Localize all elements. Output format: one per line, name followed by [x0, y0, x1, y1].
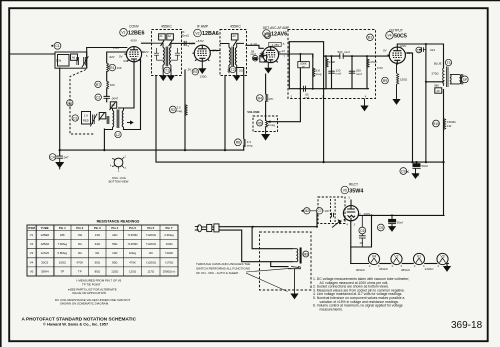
wire V4 plate line B+: [397, 44, 443, 68]
label T1 circled IF: [164, 67, 170, 73]
label C4 circled: [49, 154, 56, 161]
label C2 circled diode filter: [252, 55, 258, 61]
svg-text:Pin 2: Pin 2: [76, 226, 83, 230]
svg-text:85Ω: 85Ω: [95, 269, 101, 273]
svg-text:34Ω: 34Ω: [95, 242, 101, 246]
svg-text:369-18: 369-18: [451, 320, 483, 331]
antenna tuning cap C1A: [82, 56, 89, 67]
label C1 circled antenna: [51, 42, 61, 49]
heater string circle V4: [368, 253, 380, 264]
trimmer A2 box: [167, 34, 174, 40]
svg-text:A2: A2: [168, 34, 172, 38]
svg-text:2K: 2K: [227, 69, 231, 73]
scan edge left: [0, 0, 2, 347]
svg-text:1Meg: 1Meg: [129, 251, 137, 255]
svg-text:270Ω: 270Ω: [432, 72, 440, 76]
svg-text:© Howard W. Sams & Co., Inc. 1: © Howard W. Sams & Co., Inc. 1957: [43, 322, 108, 327]
wire AC line bottom: [219, 230, 292, 262]
svg-text:100Ω: 100Ω: [166, 242, 174, 246]
svg-text:87V: 87V: [213, 49, 218, 53]
tube V4 pin stubs: [387, 55, 397, 65]
rectifier switch dashed box: [318, 197, 345, 224]
wire V3 diode return: [288, 42, 290, 89]
label V1 circled: [120, 29, 128, 37]
label C3 circled padder: [72, 115, 78, 121]
svg-text:12AV6: 12AV6: [271, 32, 287, 38]
wire rectifier output 100V line: [358, 214, 444, 216]
wire heater seg4: [425, 263, 437, 265]
speaker voice coil: [460, 74, 463, 84]
resistor 100 osc: [107, 81, 109, 89]
tube V5 internals: [347, 206, 355, 221]
svg-text:50C5: 50C5: [394, 34, 407, 40]
label R3 circled V2 cathode: [192, 69, 198, 75]
svg-text:Pin 7: Pin 7: [166, 226, 173, 230]
svg-text:13Ω: 13Ω: [95, 233, 101, 237]
T1 primary coil: [152, 43, 165, 69]
svg-text:V3: V3: [440, 255, 444, 259]
oscillator tuning cap C1B: [90, 114, 97, 127]
wire 6.8meg branch: [312, 54, 314, 89]
resistor 470K left: [326, 59, 328, 68]
trimmer A4 arrow: [99, 113, 105, 121]
output transformer primary: [443, 68, 444, 86]
label V2 circled: [194, 29, 202, 37]
ground below detector box: [361, 99, 367, 111]
wire heater seg2: [380, 263, 391, 265]
svg-text:47K: 47K: [268, 97, 273, 101]
svg-text:A5: A5: [111, 103, 115, 107]
wire 470K-120mmf branch to B+: [323, 57, 325, 162]
svg-text:OUTPUT: OUTPUT: [389, 29, 403, 33]
svg-text:†1350Ω: †1350Ω: [127, 233, 138, 237]
svg-text:30mf: 30mf: [397, 220, 404, 224]
svg-text:1meg: 1meg: [268, 123, 276, 127]
wire T2 return to AVC: [224, 76, 226, 151]
oscillator coil pin arrow: [127, 121, 133, 124]
svg-text:M2: M2: [304, 209, 309, 213]
heater string circle V1: [413, 253, 424, 264]
svg-text:1.6: 1.6: [84, 114, 88, 118]
svg-text:R7: R7: [96, 83, 100, 87]
cap C8 .012: [419, 47, 426, 52]
svg-text:10K: 10K: [117, 66, 122, 70]
svg-text:12BA6: 12BA6: [40, 242, 49, 246]
clock switch dashed box: [260, 232, 312, 290]
wire AC line top: [219, 210, 317, 227]
svg-text:500K: 500K: [300, 62, 307, 66]
svg-text:TUBE: TUBE: [41, 226, 49, 230]
trimmer A6 box: [71, 54, 78, 60]
label M3 circled solenoid: [303, 251, 309, 257]
svg-text:M3: M3: [303, 252, 308, 256]
wire detector inner return: [290, 88, 369, 90]
svg-text:120Ω: 120Ω: [129, 269, 137, 273]
label SP circled speaker: [461, 76, 468, 83]
detector dashed box: [288, 30, 376, 99]
junction dots detector line: [252, 43, 427, 228]
resistor 6.8meg: [313, 68, 315, 77]
svg-text:VOLUME: VOLUME: [247, 110, 259, 114]
ground V3 cathode: [265, 63, 271, 73]
svg-text:BLUE: BLUE: [434, 62, 442, 66]
svg-text:mmf: mmf: [250, 52, 256, 56]
wire V2 plate to T2: [210, 50, 220, 52]
wire B+ bus L2: [156, 76, 444, 163]
wire antenna to V1 grid: [87, 48, 127, 69]
wire 470K branch: [325, 56, 327, 89]
trimmer A4 box: [99, 113, 106, 119]
wire OT primary to B+ via R10: [443, 90, 445, 216]
T2 ground stub: [229, 69, 237, 75]
label V3 circled: [263, 30, 271, 38]
photofact footer: [22, 317, 137, 327]
T1 trimmer arrows: [161, 41, 173, 47]
table row V2: [30, 242, 174, 246]
svg-text:C6: C6: [360, 229, 364, 233]
wire V1 plate to T1: [142, 42, 152, 44]
ground volume: [262, 127, 269, 140]
svg-text:V1: V1: [121, 31, 125, 35]
wire V5 output loop: [351, 215, 372, 247]
svg-text:-8.5V: -8.5V: [130, 39, 137, 43]
tube V5 rectifier envelope: [343, 206, 358, 221]
svg-text:82V: 82V: [407, 51, 412, 55]
heater string circle V3: [437, 253, 448, 264]
wire heater end to ground: [447, 264, 448, 267]
svg-text:mmf: mmf: [336, 72, 342, 76]
svg-text:130Ω: 130Ω: [200, 75, 208, 79]
box grid bias label V3: [269, 42, 281, 46]
wire heater string: [351, 263, 369, 265]
wire antenna input: [10, 53, 56, 55]
svg-text:2900Ω(∞): 2900Ω(∞): [163, 269, 176, 273]
cap C6 .02 across output: [359, 215, 366, 247]
wire AC top to solenoid: [252, 227, 292, 249]
wire 250mmf branch: [351, 56, 353, 89]
svg-text:R5: R5: [258, 121, 262, 125]
svg-text:12BA6: 12BA6: [202, 31, 219, 37]
svg-text:-1.2V: -1.2V: [188, 42, 195, 46]
IF transformer T1 dashed box: [152, 30, 182, 76]
tube V1 converter envelope: [126, 47, 141, 62]
wire V1 osc plate to coil: [124, 60, 141, 130]
label R2 circled AVC: [169, 106, 176, 113]
oscillator padder box 1.6 RED: [82, 112, 91, 125]
table row V5: [30, 269, 176, 273]
small value and voltage labels: [56, 30, 457, 272]
heater string circle V2: [391, 253, 402, 264]
wire T1 to V2 grid: [182, 42, 195, 44]
table header row: [28, 226, 173, 230]
wire transformer bottom tap: [426, 81, 444, 83]
wire AVC grid return: [237, 68, 244, 151]
wire V1 cathode to osc: [119, 62, 135, 108]
tube V4 internals: [393, 44, 401, 63]
loop antenna box: [55, 52, 87, 68]
T1 secondary tuning cap: [171, 48, 180, 60]
svg-text:12BE6: 12BE6: [40, 233, 49, 237]
svg-text:C1: C1: [55, 44, 59, 48]
output transformer secondary: [450, 75, 460, 84]
svg-text:Pin 4: Pin 4: [111, 226, 118, 230]
svg-text:455KC: 455KC: [230, 25, 241, 29]
IF transformer T2 dashed box: [220, 30, 247, 76]
label R6 circled AVC line: [235, 139, 242, 146]
trimmer A3 box: [231, 34, 238, 40]
filter cap C9A 50mf electrolytic: [412, 162, 420, 178]
svg-text:35W4: 35W4: [349, 188, 363, 194]
wire T2 to V3 grid: [246, 45, 263, 48]
svg-text:V2: V2: [394, 255, 398, 259]
svg-text:VALUE OR APPLICATION: VALUE OR APPLICATION: [72, 291, 106, 295]
svg-text:mmf: mmf: [304, 96, 309, 100]
cap 500mmf series: [340, 53, 343, 59]
svg-text:R4: R4: [258, 96, 262, 100]
AC interlock plug: [195, 224, 219, 232]
svg-text:M1: M1: [67, 101, 72, 105]
wire V3 grid cap stub: [270, 46, 272, 48]
svg-text:meg: meg: [177, 109, 183, 113]
svg-text:50mΩ: 50mΩ: [181, 33, 190, 37]
clock switch contact: [288, 267, 301, 295]
T2 primary coil: [220, 44, 230, 70]
table row V3: [30, 251, 174, 255]
label C9A circled: [400, 168, 409, 175]
svg-text:56Ω: 56Ω: [112, 242, 118, 246]
svg-text:†1200Ω: †1200Ω: [146, 242, 157, 246]
svg-text:V2: V2: [30, 242, 34, 246]
svg-text:.047: .047: [324, 209, 330, 213]
svg-text:SP: SP: [463, 78, 468, 82]
svg-text:117Ω: 117Ω: [147, 269, 155, 273]
switch cap .047: [310, 210, 324, 212]
svg-text:470K: 470K: [329, 60, 336, 64]
label B1 circled: [367, 34, 374, 41]
svg-text:†1200Ω: †1200Ω: [146, 233, 157, 237]
svg-text:380: 380: [434, 84, 439, 88]
svg-text:V5: V5: [343, 188, 347, 192]
wire 500K branch: [299, 54, 301, 89]
wire V4 plate 82V down: [405, 53, 412, 162]
svg-text:SHOWN ON SCHEMATIC DIAGRAM.: SHOWN ON SCHEMATIC DIAGRAM.: [60, 302, 109, 306]
tube V1 pin stubs: [124, 52, 143, 62]
resistance readings table: [27, 225, 178, 276]
label T3 circled output transformer: [445, 59, 451, 65]
antenna C4 coupling cap: [56, 156, 63, 162]
svg-text:V4: V4: [30, 260, 34, 264]
output transformer core: [446, 67, 448, 88]
resistor R1 10K osc grid: [107, 63, 109, 72]
svg-text:mmf: mmf: [356, 72, 362, 76]
svg-text:BOTTOM VIEW: BOTTOM VIEW: [109, 180, 129, 184]
label R7 circled osc: [95, 81, 101, 87]
ground clock switch: [291, 294, 297, 299]
T1 core: [166, 47, 168, 67]
ground T1 secondary: [168, 76, 174, 81]
svg-text:455KC: 455KC: [161, 25, 172, 29]
wire tone cap to B+: [425, 44, 427, 162]
svg-text:R3: R3: [193, 70, 197, 74]
label V5 circled: [341, 186, 349, 194]
resistor 500K detector: [298, 62, 310, 68]
svg-text:C9: C9: [379, 226, 383, 230]
label C7 circled switch cap: [316, 208, 322, 214]
table row V1: [30, 233, 174, 237]
svg-text:V4: V4: [372, 255, 376, 259]
svg-text:38VAC: 38VAC: [401, 268, 410, 272]
svg-text:C3: C3: [73, 116, 77, 120]
svg-text:100: 100: [110, 83, 115, 87]
numbered notes: [313, 277, 409, 311]
junction dots AVC bus: [59, 149, 226, 151]
oscillator coil core: [117, 110, 119, 129]
junction dots B+ bus: [323, 161, 445, 163]
label T2 circled IF: [230, 66, 236, 72]
svg-text:-.5V: -.5V: [186, 68, 191, 72]
svg-text:V3: V3: [30, 251, 34, 255]
oscillator fixed cap: [107, 116, 109, 124]
svg-text:A3: A3: [232, 34, 236, 38]
svg-text:X: X: [389, 227, 391, 231]
wire heater seg3: [402, 263, 413, 265]
switch contacts: [332, 213, 342, 228]
svg-text:470K: 470K: [370, 60, 377, 64]
svg-text:500: 500: [338, 50, 343, 54]
box A7 below V3: [260, 55, 267, 62]
coupling cap T1-V2: [184, 41, 186, 46]
svg-text:T2: T2: [231, 68, 235, 72]
coupling cap T2 secondary lead cap: [260, 52, 265, 59]
antenna padder cap: [77, 57, 79, 65]
svg-text:.02: .02: [359, 241, 363, 245]
label V4 circled: [386, 32, 394, 40]
trimmer A1 box: [159, 34, 166, 40]
oscillator grid cap: [104, 96, 110, 98]
T2 trimmer arrow: [233, 41, 237, 47]
svg-text:meg: meg: [316, 72, 322, 76]
svg-text:+8.5V: +8.5V: [196, 39, 204, 43]
trimmer A5 arrow: [110, 102, 116, 110]
svg-text:50mf: 50mf: [422, 164, 429, 168]
T2 secondary coil: [235, 43, 244, 69]
wire V3 plate line: [280, 54, 313, 57]
ground V4 cathode: [393, 63, 399, 104]
wire V1 oscillator grid: [107, 52, 127, 63]
svg-text:125Ω: 125Ω: [111, 269, 119, 273]
svg-text:0V: 0V: [124, 59, 128, 63]
oscillator coil primary: [104, 108, 113, 130]
terminal pin numbers: [146, 42, 367, 99]
svg-text:13Ω: 13Ω: [112, 251, 118, 255]
svg-text:R9: R9: [383, 79, 387, 83]
svg-text:0V: 0V: [119, 55, 123, 59]
svg-text:C4: C4: [50, 155, 54, 159]
scan edge top: [0, 0, 500, 2]
svg-text:-1.45V: -1.45V: [271, 43, 280, 47]
label C5 circled: [265, 33, 271, 39]
ground V2 cathode: [199, 61, 205, 73]
svg-text:IF AMP: IF AMP: [197, 25, 209, 29]
svg-text:B1: B1: [368, 36, 372, 40]
wire volume wiper to detector: [268, 89, 300, 122]
svg-text:Pin 6: Pin 6: [147, 226, 154, 230]
trimmer A5 box: [110, 102, 116, 108]
svg-text:†420K: †420K: [165, 251, 173, 255]
filter cap C9B 30mf electrolytic: [388, 215, 396, 231]
svg-text:150Ω: 150Ω: [59, 260, 67, 264]
resistor R10 1500ohm: [444, 119, 446, 130]
label C9B circled: [377, 224, 384, 231]
wire antenna left down: [59, 68, 61, 156]
svg-text:T1: T1: [165, 69, 169, 73]
label R4 circled 47K: [257, 95, 264, 102]
svg-text:OF ON - OFF - AUTO & SLEEP .: OF ON - OFF - AUTO & SLEEP .: [196, 271, 240, 275]
svg-text:+.5V: +.5V: [113, 46, 119, 50]
svg-text:62V: 62V: [144, 50, 149, 54]
wire detector af line b: [343, 55, 389, 57]
T1 primary tuning cap: [154, 48, 163, 60]
ground T1 primary: [160, 76, 166, 81]
svg-text:.012: .012: [430, 48, 436, 52]
svg-text:C2: C2: [96, 96, 100, 100]
svg-text:TP TIE POINT: TP TIE POINT: [82, 283, 101, 287]
svg-text:4.3Meg: 4.3Meg: [164, 233, 174, 237]
svg-text:ITEM: ITEM: [28, 226, 35, 230]
svg-text:24Ω: 24Ω: [112, 233, 118, 237]
gang linkage dashed: [70, 70, 94, 135]
svg-text:SWITCH PERFORMS ALL FUNCTIONS: SWITCH PERFORMS ALL FUNCTIONS: [196, 267, 250, 271]
svg-text:C5: C5: [265, 34, 269, 38]
label L2 circled osc coil: [115, 131, 121, 137]
box A8 output transformer tap: [435, 88, 442, 93]
svg-text:.047: .047: [63, 156, 69, 160]
osc coil bottom view socket: [110, 157, 127, 174]
svg-text:R1: R1: [110, 66, 114, 70]
svg-text:100V: 100V: [364, 212, 371, 216]
svg-text:-1.1V: -1.1V: [250, 42, 257, 46]
wire switch feed: [271, 262, 288, 267]
svg-text:470K: 470K: [129, 260, 136, 264]
solenoid coil: [292, 249, 298, 262]
svg-text:RECT: RECT: [349, 183, 358, 187]
cap .05 output coupling: [304, 86, 306, 92]
volume potentiometer: [266, 121, 268, 128]
svg-text:†1200Ω: †1200Ω: [146, 260, 157, 264]
T2 core: [232, 47, 234, 67]
svg-text:-1V: -1V: [281, 49, 286, 53]
label M2 circled switch: [301, 208, 310, 214]
pointer lines to switch: [246, 268, 291, 291]
svg-text:RESISTANCE READINGS: RESISTANCE READINGS: [97, 220, 140, 224]
svg-text:7.6Meg: 7.6Meg: [57, 242, 67, 246]
svg-text:42VAC: 42VAC: [379, 267, 388, 271]
svg-text:12BE6: 12BE6: [128, 31, 144, 37]
svg-text:CONV: CONV: [129, 25, 140, 29]
svg-text:50C5: 50C5: [41, 260, 48, 264]
svg-text:C9: C9: [401, 169, 405, 173]
svg-text:meg: meg: [247, 143, 253, 147]
svg-text:†1350Ω: †1350Ω: [127, 242, 138, 246]
stage and tube type labels: [128, 25, 407, 195]
resistor R9 150 ohm V4 cathode: [397, 73, 399, 84]
tube V2 pin stubs: [193, 51, 213, 61]
svg-text:0V: 0V: [383, 49, 387, 53]
tube V3 pin stubs: [261, 52, 280, 62]
svg-text:85Ω: 85Ω: [112, 260, 118, 264]
svg-text:TP: TP: [78, 269, 82, 273]
svg-text:A1: A1: [159, 34, 163, 38]
